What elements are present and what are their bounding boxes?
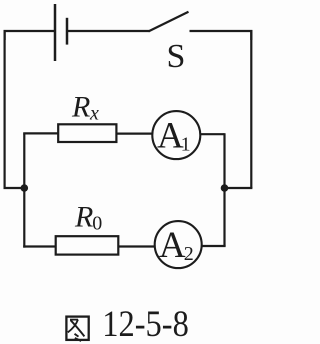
label S (switch)	[167, 38, 186, 75]
svg-text:x: x	[89, 103, 99, 125]
wire resistor R0 to ammeter A2	[118, 245, 155, 247]
junction node left	[21, 184, 29, 192]
svg-text:1: 1	[181, 133, 191, 155]
wire right branch vertical (node B riser)	[223, 133, 225, 246]
wire ammeter A2 to right riser	[202, 245, 226, 247]
label R0	[74, 201, 102, 235]
svg-text:12-5-8: 12-5-8	[102, 304, 189, 344]
wire left main vertical	[3, 30, 5, 189]
wire bottom-left horizontal to left node	[4, 187, 25, 189]
wire switch to top-right corner	[190, 31, 252, 40]
wire bottom-right horizontal to right node	[225, 187, 253, 189]
svg-text:A: A	[159, 225, 186, 266]
switch S blade (open)	[149, 12, 189, 32]
caption text 12-5-8	[102, 304, 189, 344]
caption character 图 (drawn)	[66, 317, 88, 341]
svg-text:2: 2	[184, 243, 194, 265]
battery short plate (negative)	[66, 18, 69, 45]
resistor Rx body	[58, 124, 116, 142]
ammeter A2 circle	[155, 221, 202, 268]
wire left branch vertical (node A riser)	[23, 134, 25, 248]
wire resistor Rx to ammeter A1	[116, 133, 152, 135]
wire right main vertical	[250, 30, 252, 188]
svg-text:R: R	[74, 201, 93, 234]
label Rx	[71, 91, 99, 125]
wire battery to switch	[68, 30, 150, 32]
wire ammeter A1 to right riser	[200, 133, 224, 135]
label A1 (ammeter 1)	[157, 115, 191, 156]
junction node right	[221, 184, 229, 192]
svg-text:R: R	[71, 91, 90, 124]
svg-text:S: S	[167, 38, 186, 75]
svg-text:0: 0	[92, 213, 102, 235]
resistor R0 body	[56, 236, 119, 254]
wire node A to resistor R0	[23, 245, 56, 247]
wire node A to resistor Rx	[23, 132, 58, 134]
ammeter A1 circle	[152, 111, 200, 159]
battery long plate (positive)	[54, 4, 57, 61]
wire top-left (battery positive to left corner)	[5, 31, 54, 40]
label A2 (ammeter 2)	[159, 225, 194, 266]
